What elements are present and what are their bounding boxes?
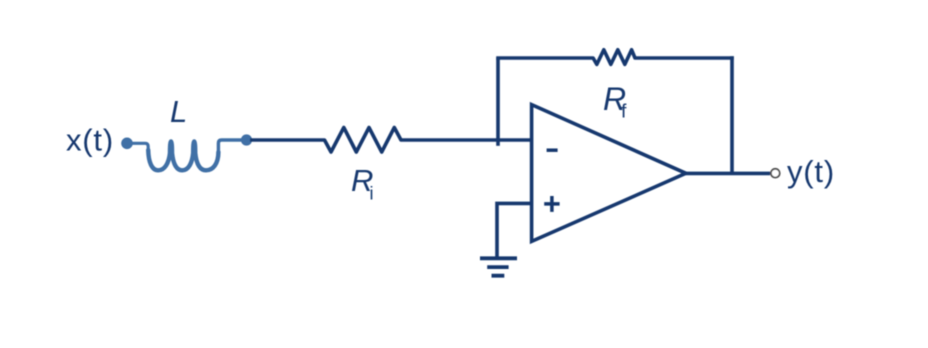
wire from inductor to resistor Ri and on to op-amp inverting input, with resistor zigzag xyxy=(250,128,532,153)
wire from non-inverting input to ground xyxy=(497,203,532,256)
op-amp U1 triangle xyxy=(532,105,686,242)
svg-text:i: i xyxy=(370,184,374,204)
svg-text:f: f xyxy=(621,101,627,123)
wire feedback right vertical down to output xyxy=(730,56,734,173)
terminal dot right of inductor xyxy=(241,134,252,145)
wire feedback left vertical xyxy=(496,58,500,140)
node junction stub at inverting input xyxy=(496,140,500,146)
svg-text:L: L xyxy=(170,94,187,129)
op-amp inverting pin minus sign xyxy=(547,148,558,152)
inductor L xyxy=(131,143,148,150)
output open terminal xyxy=(771,169,780,178)
svg-text:x(t): x(t) xyxy=(66,123,114,158)
ground symbol xyxy=(480,258,517,275)
wire from op-amp output to terminal xyxy=(684,172,770,176)
svg-text:y(t): y(t) xyxy=(787,154,835,189)
terminal dot left of inductor xyxy=(121,138,133,150)
op-amp non-inverting pin plus sign xyxy=(544,196,559,212)
feedback resistor Rf with top wire xyxy=(496,50,734,65)
